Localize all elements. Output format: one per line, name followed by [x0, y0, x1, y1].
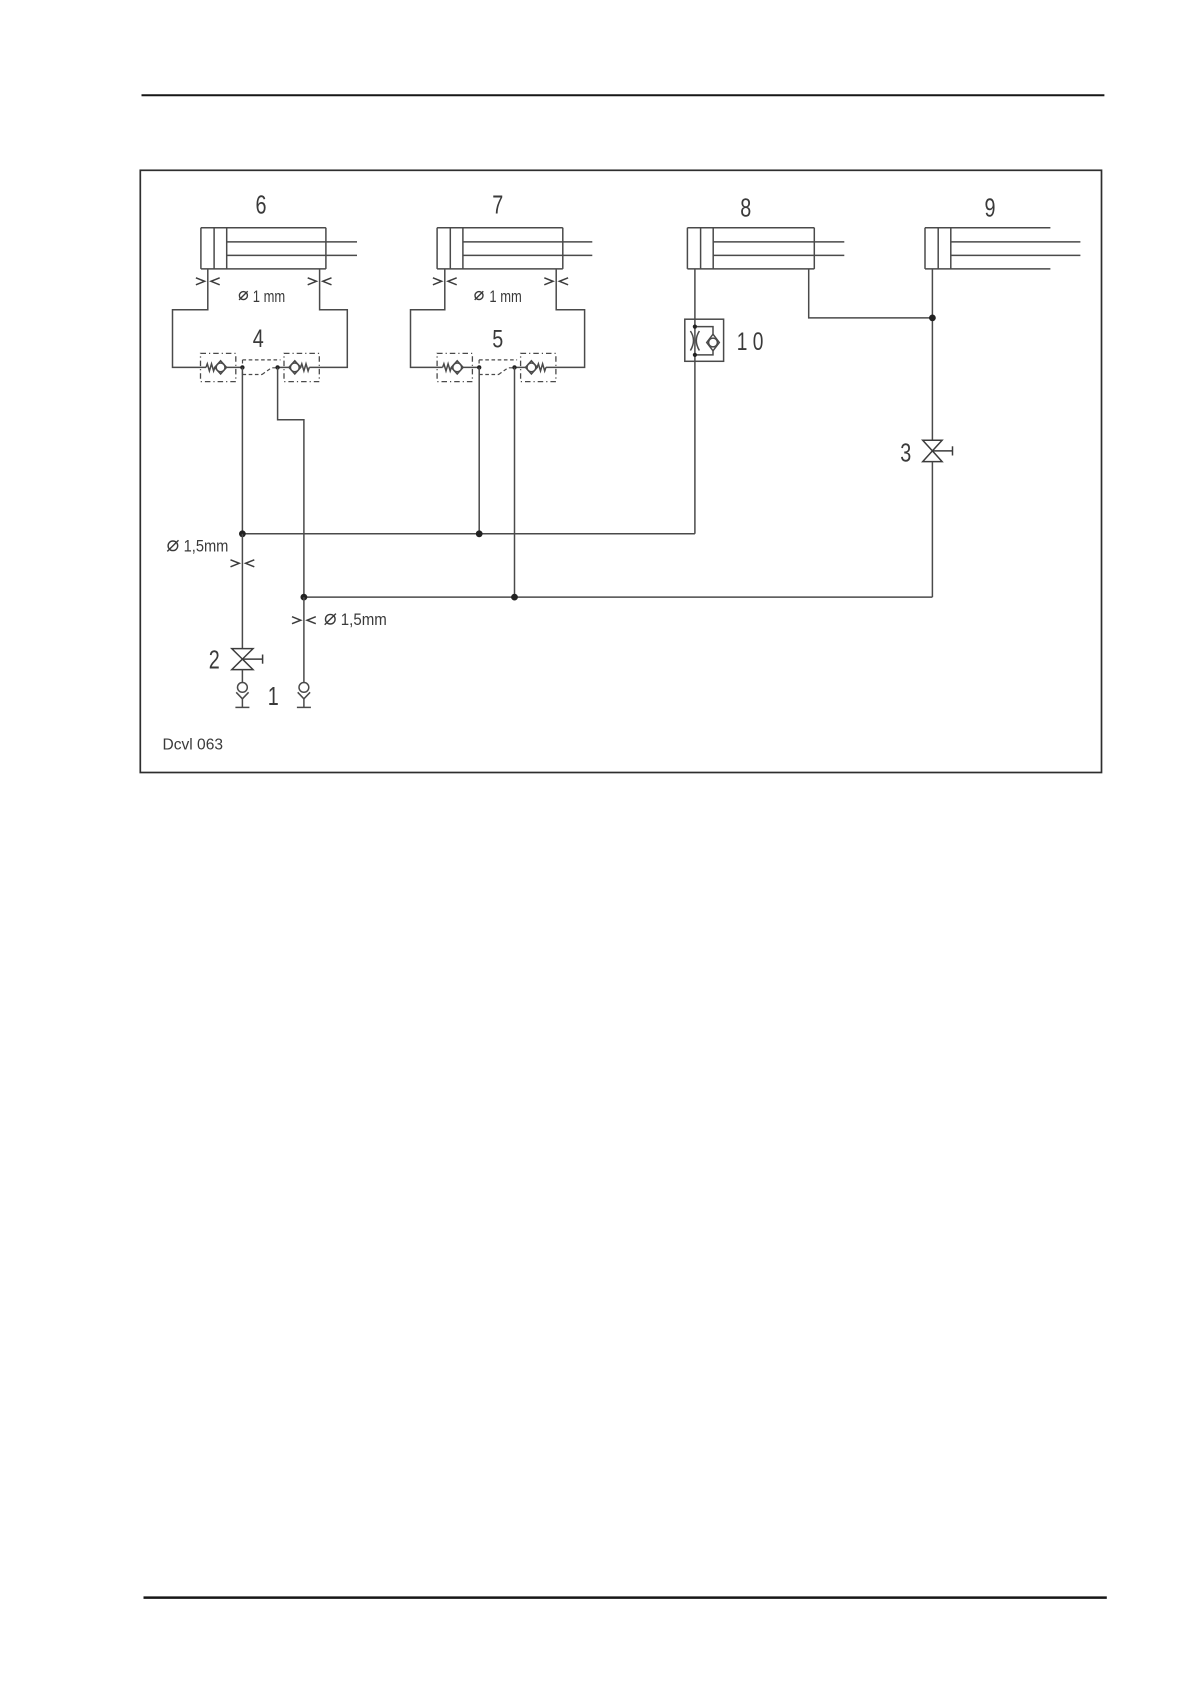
wire node to valve 4 right: [277, 366, 289, 368]
wire cyl8 left port through valve 10 to bus 1: [694, 269, 696, 534]
svg-text:9: 9: [985, 193, 996, 223]
wire cyl6 right port to valve 4: [309, 269, 347, 368]
node bus2 exhaust junction: [301, 594, 308, 601]
label diameter 1,5mm right: [325, 611, 387, 629]
wire valve 4 A down to bus 1: [241, 367, 243, 533]
wire valve 5 A down to bus 1: [478, 367, 480, 533]
valve 10 label: [737, 328, 764, 356]
wire bus 2: [304, 596, 933, 598]
label figure code Dcvl 063: [163, 737, 224, 754]
wire cyl9 port to valve 3: [931, 269, 933, 440]
wire valve 5 B down to bus 2: [514, 367, 516, 597]
node valve 5 B: [512, 365, 516, 369]
wire bus 1: [242, 533, 695, 535]
valve 4 label: [253, 325, 264, 353]
valve 4 left check valve: [215, 361, 227, 374]
cylinder 9 label: [985, 193, 996, 223]
label diameter 1mm cyl6: [239, 287, 285, 306]
svg-text:1,5mm: 1,5mm: [184, 537, 229, 555]
wire valve 5 left to node: [463, 366, 480, 368]
svg-text:1 0: 1 0: [737, 328, 764, 356]
valve 5 left spring: [443, 364, 452, 371]
restriction arrows cyl6 right port: [308, 278, 332, 285]
valve 5 label: [492, 326, 503, 354]
valve 2 shut-off: [232, 649, 263, 670]
valve 4 dashed link: [243, 360, 281, 375]
wire node to valve 5 right: [514, 366, 526, 368]
node bus1 valve5 junction: [476, 530, 483, 537]
valve 5 left check valve: [451, 361, 463, 374]
valve 10 body box: [685, 319, 724, 361]
valve 5 left body box: [437, 353, 472, 381]
node valve 5 A: [477, 365, 481, 369]
valve 3 shut-off: [923, 440, 953, 461]
wire valve 4 B down to bus 2: [278, 367, 304, 597]
valve 3 label: [900, 438, 911, 468]
valve 2 label: [209, 645, 220, 675]
wire cyl7 left port to valve 5: [411, 269, 445, 368]
valve 5 right spring: [537, 364, 546, 371]
valve 4 right body box: [284, 353, 319, 381]
svg-text:3: 3: [900, 438, 911, 468]
valve 5 dashed link: [479, 360, 517, 375]
svg-text:4: 4: [253, 325, 264, 353]
valve 10 bypass wire: [695, 327, 713, 355]
wire cyl7 right port to valve 5: [546, 269, 585, 368]
valve 4 right spring: [301, 364, 310, 371]
valve 10 check valve: [707, 334, 720, 351]
node valve 10 top: [693, 325, 697, 329]
cylinder 9: [925, 228, 1080, 269]
svg-text:6: 6: [256, 190, 267, 220]
wire valve 2 to exhaust: [241, 670, 243, 683]
wire cyl6 left port to valve 4: [173, 269, 208, 368]
exhaust port below valve 2: [235, 683, 249, 708]
valve 5 right body box: [521, 353, 556, 381]
svg-text:1 mm: 1 mm: [489, 287, 521, 306]
svg-text:8: 8: [740, 193, 751, 223]
valve 5 right check valve: [526, 361, 538, 374]
node bus2 valve5 junction: [511, 594, 518, 601]
valve 4 right check valve: [289, 361, 301, 374]
label diameter 1mm cyl7: [475, 287, 522, 306]
wire bus1 to valve 2: [241, 534, 243, 649]
node C junction: [929, 315, 936, 322]
exhaust port 1 label: [268, 681, 279, 711]
restriction arrows cyl7 left port: [433, 278, 457, 285]
cylinder 6: [201, 228, 357, 269]
wire bus2 to exhaust 1: [303, 597, 305, 682]
restriction arrows cyl6 left port: [196, 278, 220, 285]
svg-text:1,5mm: 1,5mm: [341, 611, 387, 629]
cylinder 7 label: [492, 190, 503, 220]
label diameter 1,5mm left: [167, 537, 228, 555]
valve 4 left body box: [201, 353, 236, 381]
node diagram frame: [140, 170, 1101, 772]
restriction arrows 1,5mm right: [292, 617, 316, 624]
exhaust port 1: [297, 683, 311, 708]
svg-text:5: 5: [492, 326, 503, 354]
node bus1 valve2 junction: [239, 530, 246, 537]
valve 4 left spring: [206, 364, 215, 371]
svg-text:Dcvl 063: Dcvl 063: [163, 737, 224, 754]
wire bottom rule: [144, 1596, 1107, 1599]
cylinder 8 label: [740, 193, 751, 223]
svg-text:1 mm: 1 mm: [253, 287, 285, 306]
node valve 10 bottom: [693, 353, 697, 357]
svg-text:7: 7: [492, 190, 503, 220]
wire valve 3 to bus 2: [931, 462, 933, 597]
cylinder 7: [437, 228, 592, 269]
svg-text:2: 2: [209, 645, 220, 675]
restriction arrows cyl7 right port: [544, 278, 568, 285]
node valve 4 A: [240, 365, 244, 369]
cylinder 8: [687, 228, 844, 269]
svg-text:1: 1: [268, 681, 279, 711]
restriction arrows 1,5mm left: [231, 560, 255, 567]
wire valve 4 left to node: [227, 366, 244, 368]
node valve 4 B: [275, 365, 279, 369]
wire cyl8 right port to node C: [809, 269, 933, 318]
valve 10 throttle arcs: [690, 331, 699, 351]
wire top rule: [142, 94, 1105, 96]
cylinder 6 label: [256, 190, 267, 220]
